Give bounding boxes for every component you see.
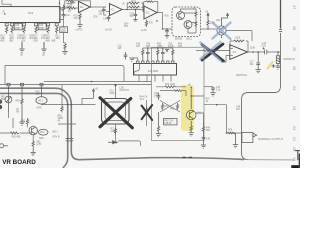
node dot B [59, 7, 60, 8]
wire vertical feed x59.5 [59, 0, 61, 23]
ground under C41 [210, 93, 215, 96]
svg-text:1/2 IC2: 1/2 IC2 [148, 69, 158, 73]
svg-text:WATER LP: WATER LP [284, 58, 296, 61]
resistor R input Q5 [10, 132, 19, 134]
resistor R x203.5 bottom [202, 122, 204, 134]
wire NORMAL OUTPUT feed [227, 105, 243, 133]
wire box B right y104.7 [204, 104, 227, 106]
svg-text:C22: C22 [66, 15, 71, 17]
wire mid horizontal y104.8 [42, 99, 96, 105]
+B supply arrow x208 [207, 13, 209, 19]
svg-text:DRV B: DRV B [53, 136, 60, 138]
svg-text:62B: 62B [33, 40, 38, 42]
svg-text:44.1: 44.1 [140, 99, 145, 101]
svg-text:+14-2V: +14-2V [105, 30, 113, 32]
capacitor C drop x135 [134, 10, 138, 19]
svg-text:R33: R33 [94, 17, 99, 19]
svg-text:C37: C37 [103, 18, 108, 20]
capacitor C x203.5 [202, 134, 206, 144]
resistor R column x65 [64, 42, 66, 50]
variable resistor VR-2 oval [37, 129, 48, 135]
wire dashed box out [201, 28, 217, 30]
ground below A1 [77, 20, 82, 28]
svg-text:C45: C45 [206, 138, 211, 140]
label box COR COMP 2 [38, 24, 46, 30]
node dot bus cross 1 [67, 104, 69, 106]
svg-text:GR2: GR2 [39, 138, 44, 140]
svg-text:68B: 68B [45, 40, 50, 42]
resistor R below pin1 [5, 26, 7, 34]
variable resistor VR-1 oval [36, 86, 47, 105]
wire x62 drop [61, 85, 63, 105]
svg-text:1005: 1005 [131, 0, 137, 2]
resistor R second row box B [174, 90, 182, 92]
wire into Q5 [0, 125, 33, 133]
wire upper feedback rail [230, 41, 248, 52]
bottom-right corner dark block [291, 165, 300, 168]
wire input rail to A1 [60, 7, 79, 9]
svg-text:R83 45B: R83 45B [12, 136, 21, 138]
ground x22 [19, 106, 24, 125]
bus tick marks [66, 139, 74, 141]
svg-text:R63: R63 [16, 100, 21, 102]
IC U2 box (1/2 IC2) [134, 64, 177, 76]
svg-text:SD: SD [42, 55, 46, 57]
wire A2 out [122, 9, 144, 11]
wire bottom loop [118, 141, 140, 146]
resistor R below A3 [145, 20, 147, 27]
wire resistor stack ends [127, 3, 143, 12]
pin box P4 [35, 23, 38, 26]
node dot A1 out [90, 6, 91, 7]
node dot A2 out [127, 9, 128, 10]
svg-text:NORMAL OUTPUT: NORMAL OUTPUT [258, 137, 283, 141]
crossing wires in box B [160, 101, 180, 113]
ground under pin5 column [41, 42, 46, 52]
pin box P2 [11, 23, 14, 26]
plus mark near yellow [272, 64, 275, 67]
wire top-left entry [2, 0, 11, 7]
capacitor C feedback A1 [67, 1, 76, 4]
connector NORMAL OUTPUT [242, 133, 257, 143]
connector box x8.5 [7, 83, 10, 86]
resistor R under jack [114, 128, 116, 134]
wire hook at IC2 left [134, 64, 140, 76]
ground left of IC2 pins [129, 58, 134, 61]
sub-circuit box B [152, 47, 205, 140]
svg-text:CMP: CMP [15, 28, 21, 30]
label box 1-105 [60, 27, 68, 33]
svg-text:1-10: 1-10 [262, 43, 267, 45]
wire IC4 output rail [248, 51, 281, 53]
svg-text:B: B [156, 19, 158, 23]
svg-text:47K: 47K [74, 18, 79, 20]
ground at x234 [233, 133, 238, 148]
transistor Q4 highlighted [186, 96, 196, 126]
ground x191 [189, 132, 194, 136]
ground x167 [165, 34, 170, 39]
wire Q5 emitter down [32, 135, 34, 140]
resistor R emitter x191 [190, 126, 192, 132]
dashed enclosure box [172, 7, 201, 37]
svg-text:2.2µ: 2.2µ [216, 90, 221, 92]
diode D bottom middle [108, 141, 118, 144]
resistor R above IC2 pin8 [172, 48, 174, 61]
svg-text:12B 45: 12B 45 [164, 123, 172, 125]
capacitor C at A2 input [102, 7, 106, 13]
resistor R feedback A1 [67, 0, 76, 1]
resistor R x22 [21, 86, 23, 106]
resistor R under Q5 [32, 140, 34, 148]
resistor R x146.5 [145, 107, 147, 114]
svg-text:21: 21 [292, 137, 296, 141]
svg-text:R40: R40 [165, 106, 170, 108]
resistor R in dashed box lower [195, 21, 197, 29]
svg-text:22: 22 [292, 126, 296, 130]
resistor R input A1 [68, 7, 76, 9]
svg-text:19: 19 [292, 157, 296, 161]
node dot A3 path [162, 28, 163, 29]
blue X over Q3 [213, 23, 231, 40]
IC2 top component cluster labels [136, 43, 183, 48]
svg-text:C55: C55 [262, 45, 267, 47]
resistor R stack upper [129, 2, 143, 4]
resistor R x62 below [61, 105, 63, 113]
wire pin5 column down [43, 42, 45, 48]
svg-text:R35: R35 [165, 15, 170, 17]
svg-text:SD: SD [20, 55, 24, 57]
svg-text:R81: R81 [21, 120, 26, 122]
capacitor C above IC2 pin3 [146, 48, 150, 61]
wire y124 short [58, 123, 76, 125]
transistor Q3 (crossed out) [217, 22, 226, 38]
wire node column down [63, 19, 65, 43]
resistor R cross left [161, 103, 163, 110]
capacitor C below A2 [107, 16, 111, 22]
resistor R below pin2 [11, 26, 13, 34]
resistor R below pin5 [47, 26, 49, 34]
wire bottom faint continuation [244, 159, 294, 161]
node dot out1 [252, 51, 254, 53]
svg-text:2K2: 2K2 [29, 38, 34, 40]
capacitor C drop to ground [256, 52, 260, 70]
label box R47 [164, 119, 178, 125]
ground at edge resistor [275, 66, 280, 69]
pin box P3 [23, 23, 26, 26]
op-amp A1 [79, 1, 91, 12]
svg-text:4R2: 4R2 [0, 40, 5, 42]
capacitor C41 right [211, 87, 215, 93]
resistor R x27.5 upper [26, 118, 28, 125]
ground under Q5 [31, 148, 36, 156]
wire rail above IC2 [132, 48, 173, 61]
resistor R above IC2 pin5 [157, 48, 159, 61]
svg-text:1R5: 1R5 [146, 46, 151, 48]
wire horizontal feed y84.5 [0, 84, 152, 86]
svg-text:B52: B52 [1, 99, 6, 101]
capacitor C polarized on rail [263, 47, 269, 54]
pin box P1 [5, 23, 8, 26]
svg-text:24F: 24F [154, 96, 159, 98]
bus wire outer [0, 88, 244, 160]
resistor R below pin6 [56, 26, 58, 34]
capacitor C above IC2 pin6 [161, 48, 165, 61]
capacitor C2 left of IC2 [124, 52, 128, 60]
svg-text:1K: 1K [206, 101, 209, 103]
IC IC1 (large DIP, left edge cut off) [0, 7, 60, 23]
resistor R stack lower [129, 6, 143, 8]
svg-text:4.7B: 4.7B [36, 144, 41, 146]
svg-text:+B: +B [95, 88, 98, 90]
svg-text:+14-2V: +14-2V [75, 30, 83, 32]
node dots on IC2 rail [147, 47, 148, 48]
svg-text:VR BOARD: VR BOARD [2, 159, 36, 166]
node dot out2 [257, 51, 259, 53]
svg-text:45B: 45B [51, 40, 56, 42]
ground x158.5 [156, 132, 161, 136]
resistor R below pin4 [35, 26, 37, 34]
resistor R below pin3 [23, 26, 25, 34]
node dot A [59, 3, 60, 4]
resistor R in dashed box upper [195, 11, 197, 19]
svg-text:1005: 1005 [235, 38, 241, 40]
resistor R above IC2 pin2 [142, 48, 144, 61]
svg-text:110K: 110K [250, 47, 256, 49]
edge connector break ticks [279, 30, 282, 32]
IC2 pin boxes top [137, 61, 174, 64]
svg-text:47K: 47K [149, 22, 154, 24]
svg-text:+B: +B [188, 84, 191, 86]
connector box x22 [21, 83, 24, 86]
svg-text:8B2: 8B2 [9, 40, 14, 42]
wire Q3 out to feedback rail [226, 31, 252, 42]
black X small over x146 [142, 105, 153, 120]
+B supply arrow x93.5 [93, 89, 95, 98]
components under second X [146, 100, 148, 126]
svg-text:VERTICAL: VERTICAL [236, 74, 248, 77]
black X over input network [202, 44, 224, 61]
relay/jack with rounded square (crossed out) [102, 99, 130, 125]
wire A1 out [90, 6, 104, 8]
capacitor C right of IC1 [62, 12, 66, 19]
op-amp A3 [144, 6, 157, 19]
svg-text:BSR52: BSR52 [175, 38, 183, 40]
svg-text:IC1: IC1 [29, 11, 34, 15]
resistor R on output feed [228, 132, 236, 134]
svg-text:23: 23 [292, 106, 296, 110]
svg-text:VR 1: VR 1 [38, 100, 44, 102]
svg-text:R73 1005: R73 1005 [165, 84, 176, 86]
pin box P5 [47, 23, 50, 26]
resistor R feedback A3 [146, 1, 154, 3]
ground x203.5 [201, 144, 206, 148]
left edge connector circle [0, 144, 8, 148]
node dot bus cross 2 [71, 104, 73, 106]
blue X over input network [201, 42, 221, 61]
resistor R cross right [176, 103, 178, 110]
transistor Q5 bottom-left [29, 126, 37, 134]
pin box P6 [55, 23, 58, 26]
node dot y81.5 [91, 81, 93, 83]
resistor R below A1 [79, 13, 81, 21]
svg-text:+A-50: +A-50 [141, 29, 148, 32]
svg-text:24: 24 [292, 86, 296, 90]
wire input to IC4 [196, 51, 230, 63]
wire inside dashed box [181, 9, 197, 33]
capacitor C x167 drop [165, 29, 169, 34]
resistor R top of box B [165, 86, 175, 88]
wire x203.5 top [196, 113, 204, 122]
capacitor C40 [157, 93, 161, 100]
svg-text:29: 29 [292, 47, 296, 51]
IC2 bottom pin stubs [139, 75, 171, 82]
svg-text:4R6: 4R6 [55, 38, 60, 40]
resistor R x208 [207, 19, 209, 29]
svg-text:CMP: CMP [39, 28, 45, 30]
label box COR COMP 1 [14, 24, 22, 30]
svg-text:1-05: 1-05 [131, 5, 136, 7]
wire feedback loop A3 [144, 2, 158, 13]
ground small x167 [165, 50, 169, 53]
left edge connector marks [0, 100, 2, 110]
wire pin3 column down [21, 42, 23, 48]
wire right of box B [204, 86, 213, 88]
op-amp IC4 [230, 45, 248, 60]
dark dashes on bottom wire [183, 156, 193, 158]
wire IC2 feed loop [5, 66, 152, 85]
svg-text:OUTPUT: OUTPUT [120, 90, 130, 92]
svg-text:B: B [4, 12, 6, 16]
resistor R at edge (hatched box) [276, 52, 279, 66]
board edge line right (lower) with corner to bus [242, 33, 281, 160]
svg-text:A: A [123, 2, 125, 6]
yellow highlight strip [181, 85, 194, 131]
svg-text:27: 27 [292, 5, 296, 9]
ground under C57 [256, 70, 261, 73]
svg-text:25: 25 [292, 66, 296, 70]
transistor Q1 in dashed box [177, 12, 185, 20]
ground below C39 [133, 19, 137, 21]
rotated page numbers right margin [292, 5, 296, 161]
svg-text:2102: 2102 [110, 93, 116, 95]
wire A3 out to dashed box [157, 13, 172, 30]
resistor R feedback IC4 [234, 40, 244, 42]
connector box x41.5 [40, 83, 43, 86]
black X over jack [100, 98, 132, 128]
bus wire inner [0, 93, 68, 168]
wire into A2 [104, 7, 110, 15]
yellow mark small [268, 62, 273, 69]
variable resistor VR circle x8.5 [5, 86, 12, 112]
ground x65 [62, 50, 67, 55]
op-amp A2 [110, 4, 123, 16]
wire collector rail [186, 89, 204, 96]
wire rows box B [156, 87, 186, 91]
svg-text:R53: R53 [228, 130, 233, 132]
svg-text:BR-1: BR-1 [53, 131, 59, 133]
wire left vertical feeds bottom [9, 112, 23, 128]
svg-text:Q52: Q52 [216, 20, 221, 22]
resistor R right of IC1 [62, 5, 64, 12]
wire feedback loop A1 [65, 1, 91, 8]
page corner line right [295, 151, 300, 161]
svg-text:GRN: GRN [37, 107, 42, 109]
value labels under IC1 row [0, 35, 60, 42]
svg-text:+B: +B [205, 12, 208, 14]
svg-text:110B: 110B [111, 131, 117, 133]
svg-text:VR2: VR2 [40, 132, 45, 134]
svg-text:1B2: 1B2 [206, 130, 211, 132]
svg-text:(25C): (25C) [186, 38, 192, 40]
resistor R x158.5 bottom [157, 112, 159, 132]
transistor Q2 in dashed box [184, 21, 192, 29]
wire through jack [115, 85, 117, 141]
svg-text:R41: R41 [170, 108, 175, 110]
ground under pin3 column [19, 42, 24, 52]
+B supply arrow x227 [222, 13, 229, 22]
wire IC1 right to node column [60, 10, 64, 20]
svg-text:1005: 1005 [67, 6, 73, 8]
board edge line right (upper) [280, 0, 282, 29]
resistor R input IC4 [203, 50, 213, 52]
svg-text:28: 28 [292, 26, 296, 30]
